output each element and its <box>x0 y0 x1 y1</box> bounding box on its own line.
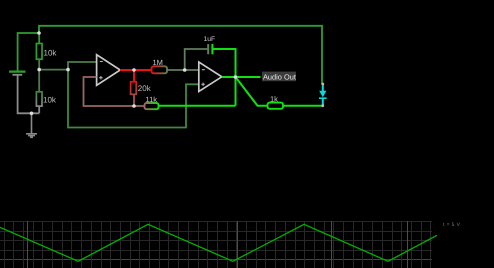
scope grid vertical lines <box>5 221 431 268</box>
wire top rail <box>39 26 322 84</box>
wire R2 top <box>38 70 40 92</box>
LED D1 <box>319 84 327 106</box>
resistor R4 1M <box>152 66 168 73</box>
node mid branch junction <box>66 68 70 72</box>
svg-text:1k: 1k <box>270 95 278 104</box>
label Audio Out <box>262 72 296 82</box>
node output junction <box>234 75 238 79</box>
wire battery negative lead <box>18 75 40 114</box>
node feedback junction <box>132 104 136 108</box>
wire mid node horizontal <box>39 69 68 71</box>
wire 11k feedback to output node <box>159 105 236 107</box>
wire 1M to opamp2 inverting input <box>167 69 199 71</box>
wire 1k to LED <box>283 105 323 107</box>
ground <box>26 113 37 137</box>
resistor R2 <box>36 92 42 106</box>
scope major vertical line 1 <box>27 221 29 268</box>
node ground junction <box>30 112 34 116</box>
wire opamp1 output <box>120 69 152 71</box>
resistor R6 1k <box>268 103 284 109</box>
svg-text:1uF: 1uF <box>204 36 216 43</box>
wire mid node to opamp2 noninverting input <box>68 70 199 128</box>
scope major vertical line 3 <box>331 221 333 268</box>
wire R2 bottom <box>38 106 40 113</box>
wire diagonal output to 1k <box>236 77 268 106</box>
battery V1 <box>9 72 25 75</box>
wire 20k bottom <box>133 94 135 106</box>
wire opamp2 output <box>222 76 261 78</box>
resistor R5 11k <box>145 103 159 109</box>
node integrator input junction <box>183 68 187 72</box>
svg-text:t = 5 V: t = 5 V <box>443 222 461 228</box>
node LED anode post <box>321 83 324 86</box>
wire capacitor right <box>212 49 235 77</box>
resistor R3 20k <box>131 82 137 95</box>
wire battery positive lead <box>18 33 39 71</box>
wire capacitor left <box>185 49 209 70</box>
scope major vertical line 4 <box>407 221 409 268</box>
scope triangle waveform trace <box>0 224 437 261</box>
wire R1 bottom <box>38 59 40 69</box>
wire output node down <box>235 77 237 106</box>
node LED cathode post <box>321 104 324 107</box>
scope major vertical line 2 <box>237 221 239 268</box>
svg-text:Audio Out: Audio Out <box>263 72 296 81</box>
op-amp U1 <box>97 55 121 86</box>
wire to opamp1 inverting input <box>68 62 97 70</box>
resistor R1 <box>36 44 42 60</box>
svg-text:1M: 1M <box>153 58 163 67</box>
capacitor C1 <box>208 44 212 54</box>
op-amp U2 <box>199 62 222 92</box>
wire 20k top <box>133 70 135 82</box>
scope grid zero axis line <box>0 259 432 261</box>
wire opamp1 noninverting feedback <box>84 77 145 106</box>
node top rail junction <box>37 31 41 35</box>
wire R1 top <box>38 33 40 44</box>
scope grid horizontal lines <box>0 222 432 251</box>
svg-text:11k: 11k <box>146 95 158 104</box>
svg-text:10k: 10k <box>43 96 57 105</box>
node divider mid junction <box>37 68 41 72</box>
svg-text:20k: 20k <box>138 84 152 93</box>
node opamp1 output junction <box>132 68 136 72</box>
svg-text:10k: 10k <box>44 49 58 58</box>
